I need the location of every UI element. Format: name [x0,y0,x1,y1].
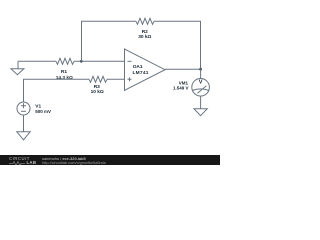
svg-text:30 kΩ: 30 kΩ [138,34,151,40]
wire [24,79,90,102]
svg-text:1.549 V: 1.549 V [173,86,189,91]
svg-text:R1: R1 [61,69,67,75]
svg-text:VM1: VM1 [179,80,189,85]
wire [23,115,25,132]
svg-text:LM741: LM741 [133,70,149,76]
CircuitLab logo [9,156,30,161]
wire [81,21,83,61]
node A [80,60,83,63]
wire [165,68,201,70]
resistor R1 [56,58,74,81]
resistor R3 [89,76,107,95]
wire [81,20,136,22]
svg-text:10 kΩ: 10 kΩ [91,89,104,95]
wire [74,60,125,62]
voltage source V1 [17,102,51,115]
wire [200,21,202,69]
wire [154,20,201,22]
svg-text:500 mV: 500 mV [35,109,51,114]
svg-text:14.3 kΩ: 14.3 kΩ [56,75,73,81]
resistor R2 [136,18,154,40]
voltmeter VM1 [173,69,209,96]
ground GND1 [11,61,24,74]
ground GND2 [17,132,30,140]
footer watermark bar [0,155,220,166]
ground GND3 [194,109,207,116]
footer text line 1 [42,156,86,161]
svg-text:OA1: OA1 [133,64,143,70]
svg-text:V: V [199,79,203,85]
wire [18,60,56,62]
footer text line 2 [42,160,106,165]
node OUT [199,68,202,71]
op-amp OA1 [125,49,166,90]
wire [200,96,202,109]
wire [107,78,125,80]
